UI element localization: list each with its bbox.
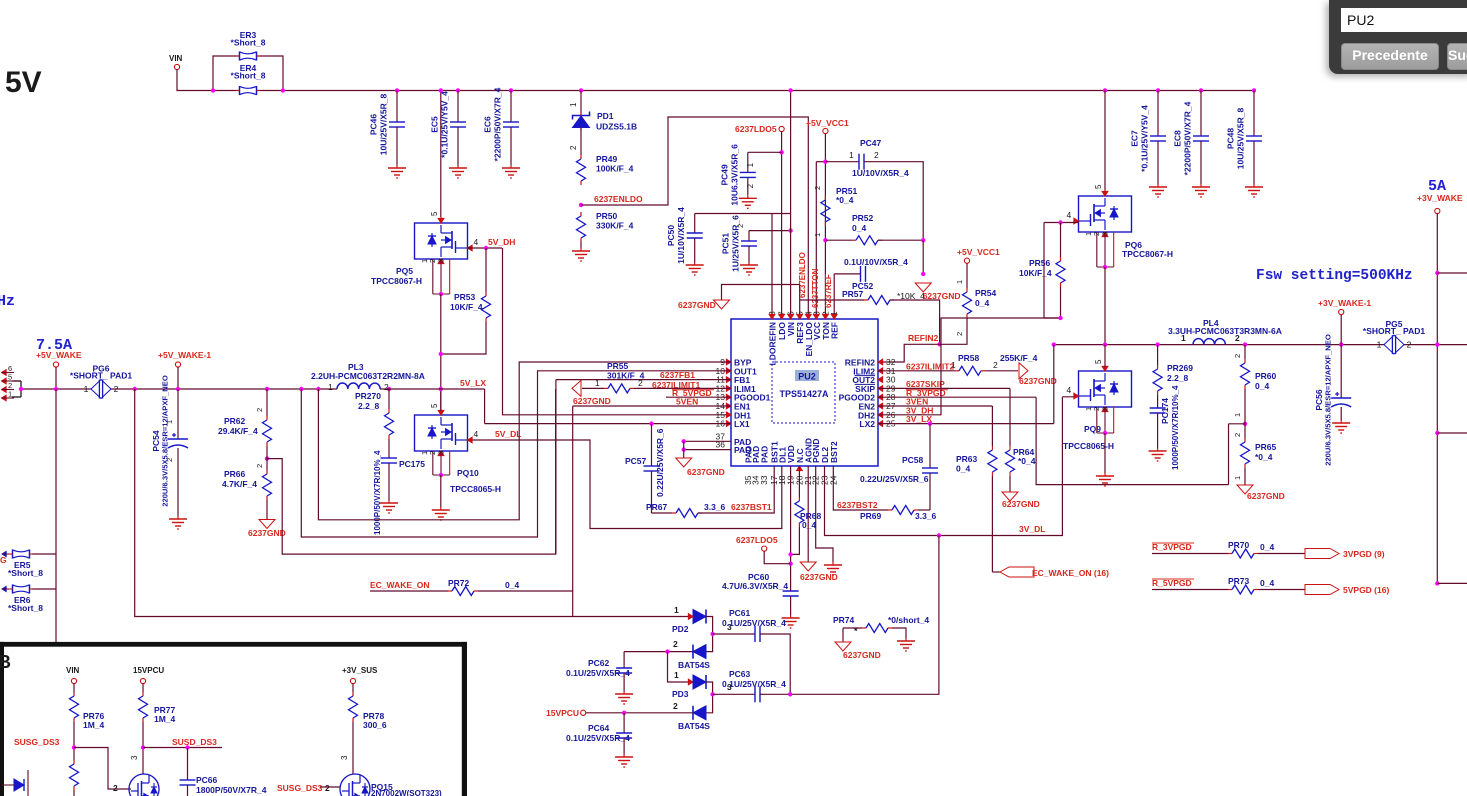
capacitor PC57 [644, 466, 660, 471]
op-amp U1 main IC PU2 TPS51427A [731, 319, 878, 466]
PC62 name [588, 658, 610, 668]
wire pr74 right [892, 628, 906, 638]
junction bus joint PQ5 [439, 88, 443, 92]
wire EC5 top lead [457, 91, 459, 123]
svg-text:1: 1 [165, 420, 174, 424]
svg-text:PR53: PR53 [454, 292, 476, 302]
net 6237TTON [811, 268, 820, 308]
junction j PC52 right [921, 272, 925, 276]
ground PC46 [388, 165, 406, 178]
svg-text:5V: 5V [5, 66, 42, 99]
junction j PC58 [928, 421, 932, 425]
button Precedente [1341, 43, 1439, 70]
resistor PR58 [955, 366, 985, 375]
wire VIN col [790, 91, 792, 320]
svg-text:0.1U/25V/X5R_4: 0.1U/25V/X5R_4 [722, 618, 786, 628]
svg-text:3VPGD (9): 3VPGD (9) [1343, 549, 1385, 559]
connector 5VPGD [1305, 585, 1389, 596]
BAT54S b [678, 721, 710, 731]
svg-text:0_4: 0_4 [505, 580, 519, 590]
svg-text:SUSD_DS3: SUSD_DS3 [172, 737, 217, 747]
resistor PR54 [963, 288, 972, 318]
svg-text:2: 2 [384, 382, 389, 392]
svg-text:*2200P/50V/X7R_4: *2200P/50V/X7R_4 [1183, 101, 1193, 175]
ground PC50 [686, 262, 704, 275]
svg-text:PQ10: PQ10 [457, 468, 479, 478]
wire vinb wire2 [73, 722, 75, 760]
wire VCC1 col [824, 134, 826, 319]
svg-text:EC_WAKE_ON: EC_WAKE_ON [370, 580, 430, 590]
resistor PR74 [862, 624, 892, 633]
PR66 name [224, 469, 246, 479]
net R_5VPGD [672, 388, 712, 398]
PR73 name [1228, 576, 1250, 586]
wire PC47 wire [825, 161, 859, 163]
wire PR270 top [388, 389, 390, 409]
junction node 6237ENLDO [579, 203, 583, 207]
wire PC47 right [864, 162, 923, 241]
junction j pr60 65 [1243, 422, 1247, 426]
svg-text:1M_4: 1M_4 [83, 720, 105, 730]
capacitor PC49 [719, 144, 756, 206]
svg-text:PR63: PR63 [956, 454, 978, 464]
net 6237BST2 [837, 500, 878, 510]
wire PC60 bottom [790, 596, 792, 615]
svg-text:5: 5 [430, 211, 439, 216]
PC63 value [722, 679, 786, 689]
wire PC46 top lead [396, 91, 398, 123]
wire pr65 leg [1229, 423, 1246, 425]
PC47 name [860, 138, 882, 148]
svg-text:1: 1 [849, 150, 854, 160]
svg-text:TPCC8067-H: TPCC8067-H [371, 276, 422, 286]
svg-text:2: 2 [813, 186, 822, 190]
transistor PQ10 [415, 415, 502, 494]
wire DL2 route [825, 397, 1063, 536]
wire PR53 bottom [441, 322, 486, 354]
resistor ER5 [9, 550, 33, 559]
resistor ER3 [231, 30, 266, 61]
PR270 value [358, 401, 380, 411]
net 5VEN [676, 397, 698, 407]
wire PC46 bottom lead [396, 127, 398, 165]
PR78 value [363, 720, 387, 730]
svg-text:PR52: PR52 [852, 213, 874, 223]
svg-text:PC63: PC63 [729, 669, 751, 679]
PC175 value [373, 450, 382, 535]
PC54 pin1 [165, 420, 174, 424]
svg-text:LDOREFIN: LDOREFIN [768, 322, 778, 365]
wire EN1 line [573, 405, 731, 407]
wire PQ9 gate wire [1062, 396, 1078, 398]
BAT54S a [678, 660, 710, 670]
wire pgd5 wire [1152, 589, 1228, 591]
wire PC52 left [834, 273, 860, 275]
svg-text:3.3_6: 3.3_6 [915, 511, 937, 521]
PR53 value [450, 302, 483, 312]
wire PR56 top [1060, 223, 1062, 258]
svg-text:2N7002W(SOT323): 2N7002W(SOT323) [371, 789, 442, 796]
title 5V [5, 66, 42, 99]
wire PR60 bot [1244, 389, 1246, 438]
PR54 pin1 [955, 280, 964, 284]
wire bottom rail [135, 389, 693, 617]
wire DH2 line [878, 318, 1061, 415]
ground PR74 [835, 642, 881, 660]
wire PGOOD1 line [666, 396, 731, 398]
node +3V_WAKE-1 [1318, 298, 1371, 315]
svg-text:1: 1 [328, 382, 333, 392]
svg-text:1: 1 [746, 162, 755, 167]
svg-text:0_4: 0_4 [802, 520, 816, 530]
wire PR68 top [798, 466, 800, 497]
junction j DL2 cross [937, 533, 941, 537]
svg-text:4.7U/6.3V/X5R_4: 4.7U/6.3V/X5R_4 [722, 581, 788, 591]
resistor PR67 [672, 509, 702, 518]
svg-text:1800P/50V/X7R_4: 1800P/50V/X7R_4 [196, 785, 267, 795]
svg-text:1: 1 [1181, 333, 1186, 343]
junction j PC51 VIN [788, 228, 792, 232]
wire wake drop [572, 591, 574, 617]
PR64 value [1018, 456, 1036, 466]
wire pc64 lead [623, 713, 625, 733]
svg-text:2.2_8: 2.2_8 [1167, 373, 1189, 383]
ground PGND [824, 562, 842, 575]
connector 3VPGD [1305, 549, 1385, 560]
svg-text:PC66: PC66 [196, 775, 218, 785]
PC54 pin2 [165, 458, 174, 462]
junction j rail PQ10 [439, 387, 443, 391]
svg-text:EC6: EC6 [483, 116, 493, 133]
wire fb route [267, 389, 556, 554]
net G frag [0, 555, 7, 565]
svg-text:1U/25V/X5R_6: 1U/25V/X5R_6 [731, 215, 741, 272]
capacitor EC7 [1130, 105, 1167, 172]
svg-text:1000P/50V/X7R/10%_4: 1000P/50V/X7R/10%_4 [373, 450, 382, 535]
inductor PL3 [311, 362, 425, 392]
junction j susd2 [185, 745, 189, 749]
svg-text:2: 2 [1407, 340, 1412, 350]
wire pq6 gate far [1044, 223, 1061, 319]
svg-text:1: 1 [674, 670, 679, 680]
wire PQ10 src down [440, 475, 442, 507]
PR53 name [454, 292, 476, 302]
PR63 value [956, 464, 970, 474]
junction bus joint EC5 [456, 88, 460, 92]
svg-text:6237GND: 6237GND [687, 467, 725, 477]
wire 3vsus wire [352, 684, 354, 692]
ground PC48 [1245, 184, 1263, 197]
wire SKIP line [878, 387, 1010, 389]
ground tri PR58 [1019, 363, 1057, 386]
ground EC7 [1149, 184, 1167, 197]
PR57 name [842, 289, 864, 299]
svg-text:PR58: PR58 [958, 353, 980, 363]
wire er5 wire [32, 553, 56, 555]
PR51 pin1 [813, 233, 822, 237]
PR66 pin2 [255, 464, 264, 468]
svg-text:UDZS5.1B: UDZS5.1B [596, 122, 637, 132]
net 3VEN [906, 397, 928, 407]
svg-text:PC51: PC51 [721, 233, 731, 255]
wire EC7 bottom lead [1157, 141, 1159, 184]
wire pr65 leg down [1228, 424, 1230, 485]
PR58 name [958, 353, 980, 363]
ground PAD [676, 458, 725, 477]
resistor PR57 [864, 296, 894, 305]
net 6237BST1 [731, 502, 772, 512]
svg-text:VIN: VIN [66, 666, 80, 675]
PR58 value [1000, 353, 1038, 363]
ground PR65 [1237, 485, 1285, 501]
wire PQ10 drain [440, 389, 442, 411]
svg-text:300_6: 300_6 [363, 720, 387, 730]
svg-text:PR72: PR72 [448, 578, 470, 588]
wire PQ9 drain [1104, 345, 1106, 367]
svg-text:15VPCU: 15VPCU [133, 666, 164, 675]
junction j pr56 dh [1058, 316, 1062, 320]
svg-text:PC49: PC49 [719, 164, 729, 186]
off-page arrow ER6 [2, 586, 9, 591]
ground PQ10 [432, 507, 450, 520]
button next (clipped) [1447, 43, 1467, 70]
PD3b pin2 [673, 701, 678, 711]
diode PD3 lower body [693, 706, 706, 720]
R_5VPGD b overline [1152, 578, 1194, 580]
PD2 name [672, 624, 689, 634]
edge diode fragment [2, 770, 28, 796]
svg-text:*2200P/50V/X7R_4: *2200P/50V/X7R_4 [493, 87, 503, 161]
PR55 name [607, 361, 629, 371]
net SUSG_DS3 [14, 737, 60, 747]
off-page arrow ER5 [2, 551, 9, 556]
svg-text:4: 4 [1067, 385, 1072, 395]
PD2 pin1 [674, 605, 679, 615]
svg-text:2: 2 [325, 783, 330, 793]
svg-text:EC5: EC5 [430, 116, 440, 133]
wire PR53 top lead [485, 248, 487, 292]
wire susgb wire [320, 786, 340, 788]
transistor Q left [129, 774, 159, 796]
svg-text:BAT54S: BAT54S [678, 660, 710, 670]
svg-text:*Short_8: *Short_8 [8, 568, 43, 578]
wire wake row2 [478, 590, 573, 592]
wire DL1 route [468, 440, 782, 529]
node 6237LDO5 [779, 126, 784, 131]
node +3V_SUS [342, 666, 378, 684]
wire ER56 vert [55, 389, 57, 642]
wire PAD37 [684, 440, 731, 442]
PR55 pin2 [638, 378, 643, 388]
svg-text:5V_DH: 5V_DH [488, 237, 515, 247]
wire 15v wire2 [142, 722, 144, 774]
node +3V_WAKE [1417, 193, 1463, 214]
wire pr76b bot [73, 790, 75, 796]
junction j byp rail [316, 387, 320, 391]
svg-text:+5V_VCC1: +5V_VCC1 [806, 118, 849, 128]
junction j PR62 [265, 387, 269, 391]
svg-text:REFIN2: REFIN2 [908, 333, 939, 343]
wire PR57 wire [800, 299, 864, 301]
IC bottom pins [743, 438, 839, 485]
PC63 name [729, 669, 751, 679]
svg-text:PR49: PR49 [596, 154, 618, 164]
svg-text:3V_DL: 3V_DL [1019, 524, 1045, 534]
wire pc63 wire [713, 693, 755, 695]
svg-text:TPCC8067-H: TPCC8067-H [1122, 249, 1173, 259]
diode PD2 lower body [693, 645, 706, 659]
capacitor PC175 [381, 458, 397, 463]
wire PC48 top lead [1253, 91, 1255, 137]
wire OUT1 route [301, 371, 731, 537]
svg-text:6237GND: 6237GND [1019, 376, 1057, 386]
svg-text:15VPCU: 15VPCU [546, 708, 579, 718]
capacitor PC46 [369, 94, 406, 156]
svg-text:4: 4 [474, 429, 479, 439]
svg-text:PR70: PR70 [1228, 540, 1250, 550]
junction j pd2b [665, 649, 669, 653]
svg-text:*0_4: *0_4 [836, 195, 854, 205]
svg-text:0_4: 0_4 [975, 298, 989, 308]
PR270 name [355, 391, 381, 401]
wire BST2 line [833, 466, 888, 510]
wire pc61 right [760, 634, 790, 694]
ground PR64 [1002, 492, 1040, 509]
wire DL net drop [765, 536, 939, 695]
svg-text:220U/6.3V/5X5.8/ESR=12/APXF_NE: 220U/6.3V/5X5.8/ESR=12/APXF_NEO [161, 375, 170, 507]
PQ15 value [371, 789, 442, 796]
svg-text:PR67: PR67 [646, 502, 668, 512]
node +5V_VCC1 [806, 118, 849, 134]
svg-text:+5V_VCC1: +5V_VCC1 [957, 247, 1000, 257]
capacitor PC58 [922, 468, 938, 473]
svg-text:2: 2 [673, 639, 678, 649]
PR65 pin2 [1233, 433, 1242, 437]
svg-text:100K/F_4: 100K/F_4 [596, 164, 634, 174]
PD3 arrow [688, 679, 693, 685]
svg-text:*0/short_4: *0/short_4 [888, 615, 929, 625]
svg-text:TPCC8065-H: TPCC8065-H [1063, 441, 1114, 451]
svg-text:1: 1 [955, 280, 964, 284]
wire gnd rail 486 [1036, 397, 1228, 484]
ground PQ9 src [1096, 473, 1114, 486]
wire PC49 branch [748, 151, 782, 153]
wire 15vpcu wire [586, 712, 693, 714]
wire VCC join [816, 161, 825, 163]
wire stub b2 [1437, 582, 1467, 584]
PR60 pin1 [1233, 413, 1242, 417]
PR58 pin2 [993, 360, 998, 370]
PR56 name [1029, 258, 1051, 268]
wire BST1 line [698, 466, 774, 513]
PR55 pin1 [595, 378, 600, 388]
PQ15 name [371, 782, 393, 792]
wire stub b1 [1437, 432, 1467, 434]
svg-text:2: 2 [1233, 433, 1242, 437]
net SUSD_DS3 [172, 737, 217, 747]
short PG5 [1363, 319, 1425, 354]
resistor PR269 [1153, 365, 1162, 395]
ground PC52 [915, 283, 960, 301]
junction j LDO col [779, 150, 783, 154]
svg-text:+5V_WAKE: +5V_WAKE [36, 350, 82, 360]
junction j out1 rail [299, 387, 303, 391]
PC62 value [566, 668, 630, 678]
svg-text:4: 4 [474, 237, 479, 247]
svg-text:5: 5 [1094, 359, 1103, 364]
PR52 name [852, 213, 874, 223]
wire pd2b wire [624, 651, 693, 653]
capacitor PC56 [1314, 334, 1351, 466]
wire PC51 top lead [748, 231, 750, 241]
svg-text:PQ5: PQ5 [396, 266, 413, 276]
PR72 name [448, 578, 470, 588]
svg-text:PR56: PR56 [1029, 258, 1051, 268]
svg-text:5V_DL: 5V_DL [495, 429, 521, 439]
svg-text:Hz: Hz [0, 293, 15, 310]
svg-text:3: 3 [437, 451, 446, 455]
net 6237REF [824, 274, 833, 308]
junction j pc61 dl [788, 692, 792, 696]
short PG6 [70, 364, 132, 399]
PR76 name [83, 711, 105, 721]
PR69 name [860, 511, 882, 521]
capacitor PC64 [616, 733, 632, 738]
svg-text:PC62: PC62 [588, 658, 610, 668]
svg-text:0.1U/10V/X5R_4: 0.1U/10V/X5R_4 [844, 257, 908, 267]
PR62 value [218, 426, 258, 436]
svg-text:*0.1U/25V/Y5V_4: *0.1U/25V/Y5V_4 [1140, 105, 1150, 172]
wire PR54 bottom [940, 318, 967, 344]
junction j wake fsw [1435, 271, 1439, 275]
PR65 pin1 [1233, 476, 1242, 480]
svg-text:PR54: PR54 [975, 288, 997, 298]
svg-text:3: 3 [1101, 407, 1110, 411]
svg-text:EC7: EC7 [1130, 130, 1140, 147]
wire LDO5 wire [781, 132, 783, 319]
svg-text:2: 2 [993, 360, 998, 370]
resistor PR66 [263, 470, 272, 500]
resistor ER6 [9, 585, 33, 594]
PC64 name [588, 723, 610, 733]
resistor PR60 [1241, 359, 1250, 389]
PR58 pin1 [951, 360, 956, 370]
wire pgd3 wire2 [1258, 553, 1317, 555]
PR54 name [975, 288, 997, 298]
svg-text:0.1U/25V/X5R_4: 0.1U/25V/X5R_4 [566, 668, 630, 678]
junction j pg6 r [133, 387, 137, 391]
transistor PQ5 [371, 223, 468, 286]
svg-text:6237GND: 6237GND [800, 572, 838, 582]
net REFIN2 [908, 333, 939, 343]
PC58 name [902, 455, 924, 465]
svg-text:Fsw setting=500KHz: Fsw setting=500KHz [1256, 268, 1413, 284]
svg-text:*SHORT_ PAD1: *SHORT_ PAD1 [70, 371, 132, 381]
junction j fb div [265, 456, 269, 460]
PR56 value [1019, 268, 1052, 278]
svg-text:5: 5 [1094, 184, 1103, 189]
wire EC8 top lead [1200, 91, 1202, 137]
PD2 arrow [688, 614, 693, 620]
resistor PR78 [349, 692, 358, 722]
wire ER3 loop [213, 56, 283, 91]
junction j wake b1 [1435, 431, 1439, 435]
svg-text:LX2: LX2 [859, 419, 875, 429]
wire gnd tri net [722, 285, 800, 320]
wire PQ6 drain [1104, 91, 1106, 197]
zener diode PD1 [569, 102, 637, 150]
PR65 value [1255, 452, 1273, 462]
